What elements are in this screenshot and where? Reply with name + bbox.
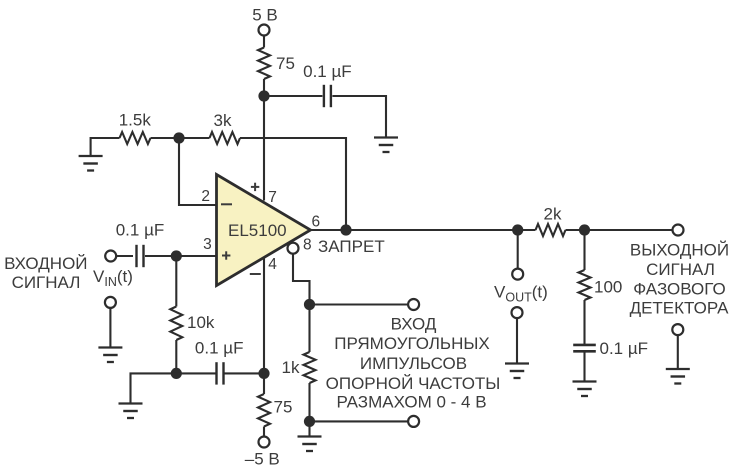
svg-text:РАЗМАХОМ 0 - 4 В: РАЗМАХОМ 0 - 4 В [336, 392, 486, 411]
resistor R6 1k [304, 352, 316, 383]
svg-text:1.5k: 1.5k [119, 111, 152, 130]
wire R5 to -5V terminal [263, 427, 265, 437]
terminal phase detector output [673, 225, 684, 236]
svg-text:5 В: 5 В [252, 6, 278, 25]
wire R6 to node G [308, 383, 310, 421]
ground G2 feedback divider [79, 156, 103, 171]
wire R4 to node D [175, 340, 177, 373]
terminal VOUT test point [512, 269, 523, 280]
wire node B to pin 2 [179, 138, 216, 205]
wire VOUT node to test point [517, 230, 519, 269]
wire node B to R3 [179, 137, 210, 139]
svg-text:–5 В: –5 В [245, 449, 280, 468]
terminal +5V [259, 25, 270, 36]
svg-text:0.1 µF: 0.1 µF [600, 339, 649, 358]
terminal VOUT ground test point [512, 307, 523, 318]
ground G8 [666, 369, 690, 384]
svg-text:0.1 µF: 0.1 µF [195, 339, 244, 358]
svg-text:1k: 1k [282, 358, 300, 377]
wire node G to reference input terminal bottom [310, 420, 408, 422]
wire R3 to output node [240, 138, 346, 230]
svg-text:ОПОРНОЙ ЧАСТОТЫ: ОПОРНОЙ ЧАСТОТЫ [326, 374, 501, 393]
wire VIN test point to ground G3 [109, 308, 111, 347]
wire node H to output terminal [585, 229, 673, 231]
svg-text:0.1 µF: 0.1 µF [303, 62, 352, 81]
wire R2 to node B [151, 137, 180, 139]
junction node C non-inverting input [171, 250, 182, 261]
svg-text:3: 3 [203, 236, 212, 253]
wire node F to R6 [308, 305, 310, 353]
wire node F to reference input terminal [310, 303, 408, 305]
ground G6 [505, 364, 529, 379]
junction node G [304, 416, 315, 427]
resistor R3 3k [210, 132, 241, 144]
svg-text:ВЫХОДНОЙ: ВЫХОДНОЙ [630, 241, 729, 260]
pin 8 bubble [288, 243, 299, 254]
resistor R2 1.5k [120, 132, 151, 144]
resistor R4 10k [170, 307, 182, 341]
junction node H [579, 224, 590, 235]
wire pin 8 to node F [293, 254, 310, 305]
svg-text:ВХОД: ВХОД [391, 315, 437, 334]
terminal VIN test point [105, 297, 116, 308]
wire R1 to node A [263, 79, 265, 96]
minus sign inverting input pin 2 [221, 203, 232, 205]
svg-text:ЗАПРЕТ: ЗАПРЕТ [318, 237, 385, 256]
wire C2 to pin 3 [145, 255, 216, 257]
minus sign supply pin 4 [250, 273, 261, 275]
wire node H to R8 [583, 230, 585, 270]
svg-text:8: 8 [303, 236, 312, 253]
wire node D to ground G4 [131, 373, 177, 402]
resistor R1 75 [258, 48, 270, 80]
svg-text:ФАЗОВОГО: ФАЗОВОГО [633, 279, 725, 298]
svg-text:4: 4 [268, 256, 277, 273]
capacitor C2 0.1 uF [137, 245, 144, 267]
plus sign non-inverting input pin 3 [222, 251, 230, 259]
wire detector test point to ground G8 [677, 335, 679, 368]
resistor R8 100 [579, 270, 591, 300]
junction node A on 5V rail [258, 90, 269, 101]
wire ground G2 to R2 [91, 138, 120, 155]
svg-text:7: 7 [268, 189, 277, 206]
svg-text:СИГНАЛ: СИГНАЛ [646, 260, 715, 279]
svg-text:75: 75 [274, 398, 293, 417]
svg-text:0.1 µF: 0.1 µF [116, 221, 165, 240]
wire node A to op-amp pin 7 [263, 96, 265, 201]
wire C3 to node E [223, 372, 264, 374]
wire R8 to C4 [583, 300, 585, 345]
resistor R7 2k [536, 224, 566, 236]
svg-text:ПРЯМОУГОЛЬНЫХ: ПРЯМОУГОЛЬНЫХ [334, 334, 490, 353]
svg-text:СИГНАЛ: СИГНАЛ [12, 273, 81, 292]
plus sign supply pin 7 [251, 183, 259, 191]
wire R7 to node H [566, 229, 585, 231]
svg-text:ДЕТЕКТОРА: ДЕТЕКТОРА [630, 299, 730, 318]
terminal input signal [105, 251, 116, 262]
op-amp U1 EL5100 [217, 175, 311, 286]
svg-text:10k: 10k [187, 313, 215, 332]
svg-text:2k: 2k [544, 205, 562, 224]
ground G1 bypass [374, 138, 398, 153]
junction output feedback node [340, 224, 351, 235]
ground G5 [298, 437, 322, 452]
wire node D to C3 [176, 372, 216, 374]
svg-text:6: 6 [312, 213, 321, 230]
terminal detector ground test point [672, 324, 683, 335]
junction VOUT node [512, 224, 523, 235]
svg-text:100: 100 [594, 278, 622, 297]
wire input terminal to C2 [116, 255, 133, 257]
ground G3 input test point [98, 348, 122, 363]
wire C1 to ground G1 [332, 96, 386, 137]
ground G7 [573, 382, 597, 397]
ground G4 [119, 404, 143, 419]
svg-text:75: 75 [276, 54, 295, 73]
capacitor C1 0.1 uF [324, 85, 331, 107]
capacitor C3 0.1 uF [217, 362, 224, 384]
resistor R5 75 [258, 394, 270, 427]
wire node G to ground G5 [308, 421, 310, 435]
terminal -5V [259, 437, 270, 448]
capacitor C4 0.1 uF [573, 345, 596, 351]
svg-text:EL5100: EL5100 [228, 221, 287, 240]
terminal reference input bottom [408, 416, 419, 427]
junction node F [304, 299, 315, 310]
wire 5V terminal to R1 [263, 36, 265, 48]
junction node B inverting divider [173, 132, 184, 143]
wire C4 to ground G7 [583, 351, 585, 380]
wire pin 4 to node E to R5 [263, 258, 265, 394]
svg-text:ВХОДНОЙ: ВХОДНОЙ [4, 254, 87, 273]
svg-text:2: 2 [201, 188, 210, 205]
junction node D [171, 368, 182, 379]
wire output pin 6 to R7 [311, 229, 536, 231]
wire VOUT ground test point to ground G6 [516, 318, 518, 362]
wire node A to C1 [264, 95, 322, 97]
svg-text:ИМПУЛЬСОВ: ИМПУЛЬСОВ [360, 354, 467, 373]
junction node E on pin 4 rail [258, 368, 269, 379]
wire node C to R4 [175, 256, 177, 307]
svg-text:3k: 3k [214, 111, 232, 130]
terminal reference input top [408, 299, 419, 310]
